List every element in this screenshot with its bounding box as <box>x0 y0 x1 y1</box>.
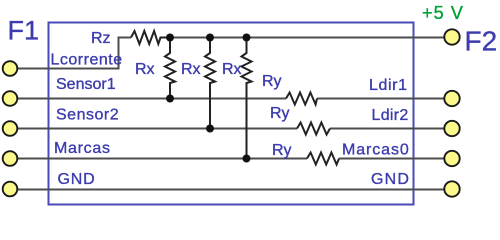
svg-text:Sensor2: Sensor2 <box>56 107 119 124</box>
svg-text:Rx: Rx <box>135 61 155 78</box>
pin F2-3 (Ldir2) <box>444 121 459 136</box>
junction Sensor2 / Rx2 <box>206 125 214 133</box>
pin F2-1 (+5V) <box>444 29 459 44</box>
resistor Ry2 <box>297 123 330 135</box>
pin F1-3 (Sensor2) <box>3 121 18 136</box>
svg-text:Ldir2: Ldir2 <box>372 107 409 124</box>
pin F1-2 (Sensor1) <box>3 91 18 106</box>
resistor Rx1 <box>165 38 175 99</box>
svg-text:+5 V: +5 V <box>422 3 464 23</box>
wire Sensor1/Ldir1 row <box>17 98 286 100</box>
wire Sensor2/Ldir2 row <box>17 128 297 130</box>
junction top rail / Rx2 <box>206 34 214 42</box>
svg-text:Ry: Ry <box>270 105 290 122</box>
resistor Rx3 <box>242 38 252 159</box>
svg-text:Ry: Ry <box>262 73 282 90</box>
junction Marcas / Rx3 <box>243 155 251 163</box>
junction top rail / Rx3 <box>243 34 251 42</box>
svg-text:Ry: Ry <box>272 142 292 159</box>
svg-text:Marcas: Marcas <box>54 140 111 157</box>
junction top rail / Rx1 <box>166 34 174 42</box>
svg-text:F2: F2 <box>465 26 498 57</box>
svg-text:Sensor1: Sensor1 <box>56 76 116 93</box>
pin F1-5 (GND) <box>3 182 18 197</box>
resistor Ry1 <box>286 93 317 105</box>
svg-text:Rz: Rz <box>91 30 111 47</box>
pin F1-4 (Marcas) <box>3 151 18 166</box>
wire Marcas/Marcas0 row <box>17 158 307 160</box>
connector block F1..F2 bounding box <box>49 23 414 205</box>
pin F1-1 (Lcorrente) <box>3 61 18 76</box>
resistor Ry3 <box>307 153 339 165</box>
resistor Rz <box>131 31 166 44</box>
pin F2-2 (Ldir1) <box>444 91 459 106</box>
svg-text:Lcorrente: Lcorrente <box>51 52 123 69</box>
svg-text:Rx: Rx <box>222 61 242 78</box>
junction Sensor1 / Rx1 <box>166 95 174 103</box>
wire Lcorrente row <box>17 38 131 69</box>
svg-text:Marcas0: Marcas0 <box>342 142 410 159</box>
pin F2-4 (Marcas0) <box>444 151 459 166</box>
svg-text:Ldir1: Ldir1 <box>369 77 408 94</box>
wire GND row <box>17 189 444 191</box>
wire +5V top rail <box>166 37 444 39</box>
svg-text:GND: GND <box>371 171 410 188</box>
svg-text:GND: GND <box>58 171 96 188</box>
resistor Rx2 <box>205 38 215 129</box>
svg-text:F1: F1 <box>8 16 40 46</box>
svg-text:Rx: Rx <box>181 61 201 78</box>
pin F2-5 (GND) <box>444 181 459 196</box>
